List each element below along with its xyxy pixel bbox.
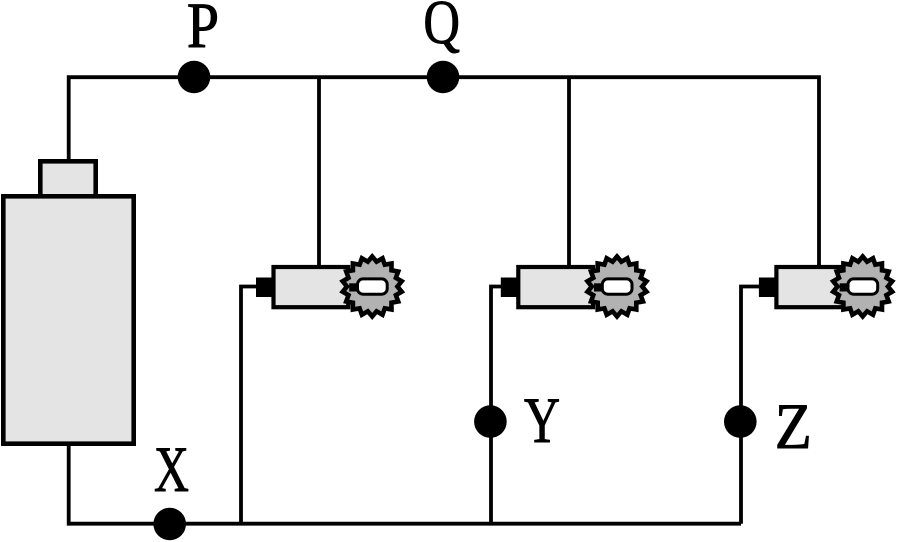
wire bottom bus from battery negative down and across	[69, 440, 741, 524]
svg-text:Z: Z	[775, 390, 812, 462]
wire branch 2 vertical from top bus to lamp L2	[567, 77, 571, 267]
lamp L3 left terminal	[759, 278, 777, 298]
node Q junction dot	[427, 61, 460, 94]
wire top bus from battery positive up and across to right branch	[69, 77, 819, 267]
lamp L3 holder body	[776, 267, 851, 307]
battery cell body	[3, 196, 133, 443]
lamp L2 bulb capsule	[602, 279, 632, 294]
lamp L2 scalloped bulb flange	[588, 257, 647, 317]
lamp L1 bulb capsule	[358, 279, 388, 294]
svg-text:P: P	[187, 0, 219, 62]
lamp L2 left terminal	[501, 278, 519, 298]
lamp L1 left terminal	[256, 278, 274, 298]
lamp L3 scalloped bulb flange	[833, 257, 892, 317]
node Y junction dot	[474, 405, 507, 438]
svg-text:Y: Y	[524, 384, 560, 457]
lamp L2 holder body	[518, 267, 593, 307]
lamp L2 group	[501, 257, 647, 317]
lamp L3 bulb capsule	[848, 279, 878, 294]
node Z junction dot	[724, 405, 757, 438]
wire branch 1 vertical from top bus to lamp L1	[317, 77, 321, 267]
lamp L1 holder body	[274, 267, 349, 307]
lamp L3 capsule contact nub	[840, 283, 848, 291]
svg-text:X: X	[154, 434, 189, 506]
wire return 3 from lamp L3 terminal down through node Z to bottom bus	[741, 287, 760, 524]
lamp L3 group	[759, 257, 892, 317]
wire return 2 from lamp L2 terminal down through node Y to bottom bus	[491, 287, 502, 524]
node X junction dot	[153, 508, 186, 541]
lamp L2 capsule contact nub	[594, 283, 602, 291]
wire return 1 from lamp L1 terminal down to bottom bus	[241, 287, 258, 524]
lamp L1 group	[256, 257, 402, 317]
battery cell top terminal cap	[40, 161, 95, 196]
lamp L1 scalloped bulb flange	[343, 257, 402, 317]
lamp L1 capsule contact nub	[349, 283, 357, 291]
node P junction dot	[178, 61, 211, 94]
svg-text:Q: Q	[423, 0, 460, 57]
